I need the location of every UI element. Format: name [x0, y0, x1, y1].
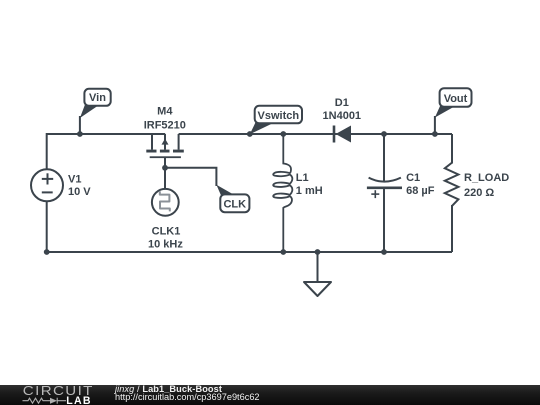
wire gate node to CLK — [164, 158, 166, 168]
node C1 bottom — [381, 249, 387, 255]
ground — [304, 252, 331, 296]
wire bottom rail — [47, 251, 452, 253]
svg-text:Vswitch: Vswitch — [258, 110, 300, 122]
node Vin flag — [80, 89, 111, 118]
svg-text:V1: V1 — [68, 174, 81, 186]
node Vin anchor — [77, 131, 83, 137]
resistor R_LOAD — [445, 163, 509, 206]
node bottom-left — [44, 249, 50, 255]
diode D1 — [323, 97, 362, 143]
svg-text:68 µF: 68 µF — [406, 185, 435, 197]
wire Vin stub — [79, 116, 81, 134]
transistor M4 (PMOS) — [144, 106, 186, 159]
node L1 top — [280, 131, 286, 137]
node L1 bottom — [280, 249, 286, 255]
node Vswitch anchor — [247, 131, 253, 137]
wire R_LOAD verticals — [451, 134, 453, 164]
svg-text:10 V: 10 V — [68, 186, 91, 198]
svg-text:R_LOAD: R_LOAD — [464, 172, 509, 184]
svg-text:LAB: LAB — [66, 394, 92, 404]
inductor L1 — [273, 134, 323, 252]
node Vout flag — [435, 88, 472, 117]
svg-text:D1: D1 — [335, 97, 349, 109]
node gate — [162, 165, 168, 171]
svg-text:CLK1: CLK1 — [152, 226, 181, 238]
svg-text:1 mH: 1 mH — [296, 185, 323, 197]
svg-text:C1: C1 — [406, 172, 420, 184]
svg-text:L1: L1 — [296, 172, 309, 184]
svg-text:1N4001: 1N4001 — [323, 110, 362, 122]
wire top rail left segment — [47, 134, 166, 170]
CircuitLab logo — [0, 385, 100, 405]
svg-text:IRF5210: IRF5210 — [144, 119, 186, 131]
wire Vout stub — [434, 116, 436, 134]
node CLK flag — [216, 185, 249, 212]
wire C1 leads — [383, 134, 385, 181]
node Vswitch flag — [250, 106, 302, 135]
wire left vertical below V1 — [46, 201, 48, 252]
wire top rail right segment — [179, 133, 452, 135]
svg-text:M4: M4 — [157, 106, 173, 118]
junction dots — [44, 131, 438, 255]
node ground — [315, 249, 321, 255]
clock source CLK1 — [148, 189, 183, 251]
voltage source V1 — [31, 169, 91, 201]
footer bar — [0, 385, 540, 405]
svg-text:CLK: CLK — [223, 199, 246, 211]
node Vout anchor — [432, 131, 438, 137]
node C1 top — [381, 131, 387, 137]
svg-text:Vout: Vout — [444, 93, 468, 105]
capacitor C1 — [367, 172, 435, 198]
wire CLK1 top lead — [164, 168, 166, 189]
svg-text:Vin: Vin — [89, 92, 106, 104]
svg-text:220 Ω: 220 Ω — [464, 187, 494, 199]
svg-text:10 kHz: 10 kHz — [148, 239, 183, 251]
